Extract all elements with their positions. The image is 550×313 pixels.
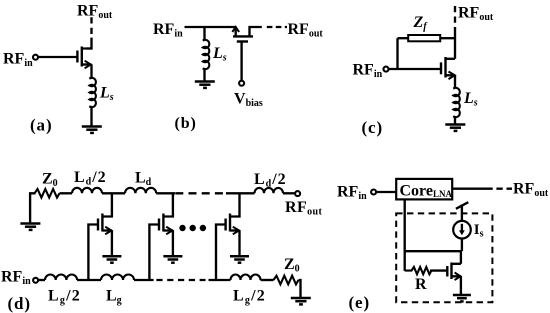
wire (d) — [102, 192, 125, 194]
wire source down (e) — [460, 276, 462, 295]
transistor M1 (c) — [441, 57, 446, 78]
wire (d) — [77, 279, 101, 281]
svg-text:(e): (e) — [349, 293, 371, 312]
control slash (e) — [456, 202, 468, 209]
wire (d) — [226, 192, 255, 194]
wire dashed to RFout (b) — [267, 26, 287, 28]
wire output (e) — [452, 188, 493, 190]
ground right (d) — [291, 298, 311, 304]
transistor M1 (b) drain lead — [250, 27, 262, 36]
wire Q3 gate (d) — [216, 225, 226, 281]
svg-text:RFin: RFin — [337, 184, 367, 203]
transistor M1 (a) — [77, 47, 81, 67]
wire gate (c) — [389, 68, 441, 70]
wire (d) — [134, 279, 154, 281]
svg-text:Ld/2: Ld/2 — [254, 171, 287, 190]
ground left (d) — [20, 224, 40, 230]
block CoreLNA (e) — [396, 179, 452, 200]
wire Is to node (e) — [461, 239, 463, 251]
terminal RFin (d) — [33, 278, 38, 283]
wire drain (a) — [87, 38, 92, 49]
wire dashed gate line (d) — [156, 279, 205, 281]
svg-text:Ls: Ls — [212, 45, 227, 64]
svg-text:(c): (c) — [362, 118, 384, 137]
svg-text:RFin: RFin — [1, 269, 31, 288]
wire inductor to ground (c) — [454, 116, 456, 124]
ground Q3 (d) — [230, 256, 249, 262]
svg-text:Ls: Ls — [463, 90, 478, 109]
inductor Lg/2 right (d) — [231, 275, 261, 281]
svg-text:Zf: Zf — [413, 14, 429, 33]
wire control (e) — [461, 205, 463, 223]
transistor M1 (b) source lead with arrow — [235, 27, 237, 36]
inductor Ls (b) — [203, 40, 210, 69]
transistor Q1 (d) drain wire — [102, 193, 112, 216]
inductor Ls (a) — [89, 78, 96, 107]
wire gate to Vbias (b) — [240, 42, 242, 81]
svg-text:(a): (a) — [30, 116, 53, 135]
svg-text:(b): (b) — [175, 115, 197, 132]
wire source to inductor (a) — [90, 65, 92, 80]
svg-text:CoreLNA: CoreLNA — [400, 183, 453, 200]
wire feedback right (c) — [440, 37, 455, 39]
inductor Lg/2 left (d) — [45, 275, 77, 281]
wire (d) — [38, 279, 45, 281]
wire drain up (c) — [454, 29, 456, 59]
current source arrow (e) — [461, 224, 463, 232]
terminal RFin (e) — [371, 190, 376, 195]
svg-text:Lg: Lg — [106, 288, 122, 307]
wire Q1 source (d) — [111, 231, 113, 256]
inductor Ld (d) — [125, 188, 156, 194]
wire dashed to RFout (c) — [454, 6, 456, 29]
wire Q1 gate (d) — [88, 225, 98, 281]
wire feedback vertical (c) — [396, 38, 398, 69]
terminal Vbias (b) — [239, 81, 244, 86]
svg-text:RFout: RFout — [77, 3, 113, 22]
wire core to bias network (e) — [404, 200, 406, 271]
wire Q2 source (d) — [172, 231, 174, 256]
wire drain up (e) — [460, 251, 462, 264]
svg-text:RFin: RFin — [353, 62, 383, 81]
svg-text:RFin: RFin — [153, 21, 183, 40]
svg-text:Ld/2: Ld/2 — [74, 169, 107, 188]
ground (e) — [453, 295, 471, 301]
svg-text:RFout: RFout — [458, 5, 494, 24]
wire (d) — [209, 279, 231, 281]
wire inductor to ground (a) — [90, 107, 92, 126]
inductor Ld/2 right (d) — [255, 188, 284, 193]
wire gate lead (a) — [38, 56, 77, 58]
ground Q1 (d) — [102, 256, 121, 262]
svg-text:RFout: RFout — [285, 199, 323, 218]
svg-text:Ls: Ls — [99, 85, 114, 104]
wire dashed drain line (d) — [175, 192, 223, 194]
wire source to inductor (c) — [454, 75, 456, 88]
resistor Z0 left (d) — [35, 189, 60, 198]
ground (c) — [445, 125, 465, 131]
wire R to gate (e) — [430, 269, 447, 271]
terminal RFin (a) — [33, 55, 38, 60]
terminal RFout (d) — [295, 191, 300, 196]
wire (d) — [156, 192, 175, 194]
svg-text:Z0: Z0 — [42, 171, 58, 190]
svg-text:RFin: RFin — [3, 51, 33, 70]
transistor Q2 (d) drain wire — [163, 193, 173, 216]
wire feedback left (c) — [398, 37, 409, 39]
dashed box (e) — [396, 213, 492, 302]
wire input (b) — [185, 26, 236, 28]
impedance Zf box (c) — [408, 35, 440, 41]
svg-text:(d): (d) — [8, 294, 31, 313]
svg-text:Vbias: Vbias — [234, 91, 263, 110]
wire left termination (d) — [30, 193, 35, 223]
dots ellipsis (d) — [179, 225, 206, 231]
current source Is circle (e) — [453, 221, 471, 239]
wire (d) — [283, 192, 295, 194]
wire dashed to RFout (e) — [496, 188, 512, 190]
transistor Q2 (d) — [159, 214, 163, 232]
svg-text:Lg/2: Lg/2 — [233, 288, 266, 307]
transistor Q1 (d) — [98, 214, 102, 232]
svg-text:Is: Is — [474, 222, 484, 240]
svg-text:RFout: RFout — [513, 181, 549, 200]
wire (d) — [261, 279, 274, 281]
wire right termination (d) — [299, 280, 301, 298]
ground (b) — [195, 82, 215, 88]
ground (a) — [82, 127, 102, 133]
wire node horizontal (e) — [405, 250, 462, 252]
wire dashed drain to RFout (a) — [90, 17, 92, 38]
terminal RFin (c) — [384, 67, 389, 72]
transistor Q3 (d) — [226, 214, 230, 232]
wire Q2 gate (d) — [149, 225, 159, 281]
svg-text:Z0: Z0 — [284, 256, 300, 275]
wire (d) — [60, 192, 73, 194]
svg-text:R: R — [415, 276, 427, 293]
transistor Q3 (d) drain wire — [230, 193, 240, 216]
wire to inductor (b) — [203, 27, 205, 40]
svg-text:Ld: Ld — [135, 170, 152, 189]
wire Q3 source (d) — [238, 231, 240, 256]
resistor R (e) — [405, 267, 432, 274]
wire inductor to ground (b) — [203, 68, 205, 81]
inductor Lg (d) — [101, 275, 134, 281]
inductor Ld/2 left (d) — [72, 188, 102, 194]
svg-text:Lg/2: Lg/2 — [48, 288, 81, 307]
inductor Ls (c) — [453, 88, 460, 117]
wire input (e) — [376, 191, 396, 193]
svg-text:RFout: RFout — [288, 21, 324, 40]
resistor Z0 right (d) — [274, 276, 299, 285]
transistor M1 (e) — [447, 263, 451, 280]
ground Q2 (d) — [163, 256, 182, 262]
transistor M1 (b) channel and gate bars — [233, 36, 253, 41]
